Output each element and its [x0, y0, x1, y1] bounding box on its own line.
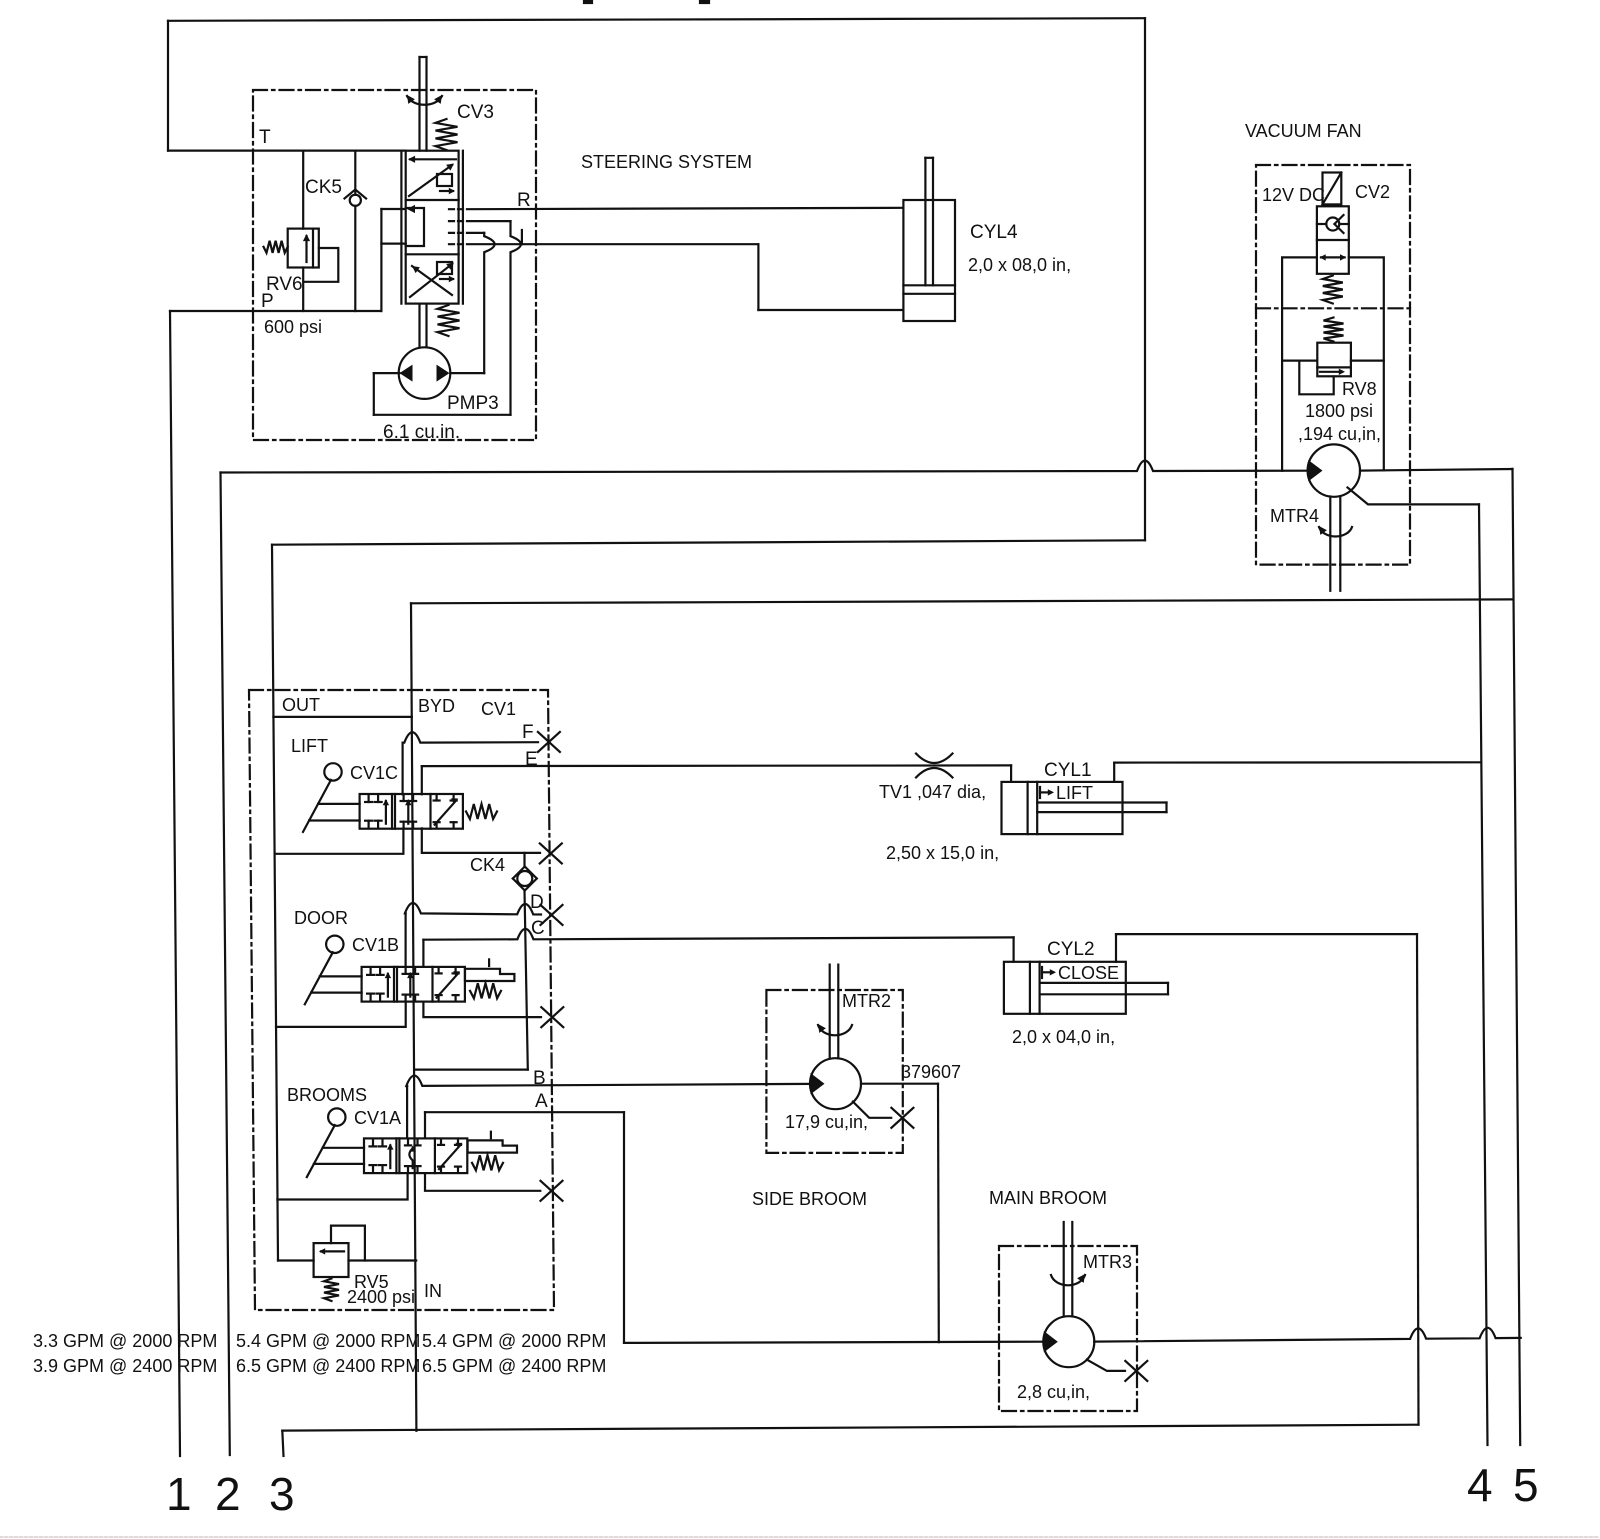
- wire RV6 riser upper: [302, 151, 304, 229]
- wire E line to TV1 and CYL1: [422, 764, 1011, 767]
- svg-text:B: B: [533, 1068, 546, 1089]
- wire CV2 left branch: [1282, 257, 1317, 470]
- svg-text:CYL1: CYL1: [1044, 760, 1092, 781]
- wire CYL2 rod side horizontal: [1116, 933, 1417, 935]
- wire pump right riser with hop over L: [484, 233, 494, 373]
- wire RV8 pilot loop: [1299, 361, 1333, 395]
- wire CV1B work port to plug: [423, 1002, 541, 1018]
- wire CYL1 rod side up: [1113, 763, 1115, 782]
- svg-text:MAIN BROOM: MAIN BROOM: [989, 1188, 1107, 1208]
- svg-text:379607: 379607: [901, 1062, 961, 1082]
- wire CK4 lower: [525, 891, 528, 1070]
- wire A riser from CV1A: [424, 1112, 426, 1138]
- svg-text:2,0 x 04,0 in,: 2,0 x 04,0 in,: [1012, 1027, 1115, 1047]
- relief valve RV8: [1317, 343, 1351, 377]
- svg-text:2400 psi: 2400 psi: [347, 1287, 415, 1307]
- svg-text:3: 3: [269, 1468, 295, 1520]
- motor MTR3: [1043, 1316, 1094, 1367]
- wire T line into CV3: [168, 150, 406, 152]
- wire pilot 3: [467, 232, 484, 234]
- cylinder CYL4 rod: [924, 158, 926, 285]
- svg-text:TV1 ,047 dia,: TV1 ,047 dia,: [879, 782, 986, 802]
- svg-text:MTR2: MTR2: [842, 991, 891, 1011]
- wire MTR2 outlet drop: [937, 1084, 940, 1343]
- wire MTR4 case drain: [1348, 488, 1480, 505]
- svg-text:CV2: CV2: [1355, 182, 1390, 202]
- cylinder CYL1 rod: [1037, 801, 1166, 803]
- svg-text:CYL2: CYL2: [1047, 939, 1095, 960]
- wire R line to CYL4 head: [467, 208, 903, 209]
- svg-text:BROOMS: BROOMS: [287, 1085, 367, 1105]
- svg-text:VACUUM FAN: VACUUM FAN: [1245, 121, 1362, 141]
- svg-text:CYL4: CYL4: [970, 222, 1018, 243]
- svg-text:4: 4: [1467, 1459, 1493, 1511]
- svg-text:RV6: RV6: [266, 274, 303, 295]
- CV3 centre cell blocked port bracket: [406, 208, 424, 246]
- MTR4 shaft: [1329, 497, 1331, 591]
- cylinder CYL1 body: [1002, 782, 1123, 834]
- CV3 bottom cell arrows: [410, 264, 452, 297]
- valve CV1A: [364, 1138, 467, 1173]
- wire A line: [425, 1111, 624, 1113]
- wire L to CYL4 cap: [758, 309, 903, 311]
- wire C drop into CYL2: [1012, 937, 1014, 961]
- wire A drop: [623, 1112, 625, 1343]
- plug below CV1C: [540, 843, 562, 863]
- svg-text:12V DC: 12V DC: [1262, 185, 1325, 205]
- MTR2 shaft: [829, 965, 831, 1059]
- svg-text:CLOSE: CLOSE: [1058, 963, 1119, 983]
- motor MTR2: [810, 1058, 861, 1109]
- relief valve RV6 pilot line: [303, 248, 338, 282]
- cylinder CYL4 body: [903, 200, 955, 321]
- svg-text:6.5 GPM @ 2400 RPM: 6.5 GPM @ 2400 RPM: [422, 1356, 606, 1376]
- wire line 2 vertical: [221, 473, 230, 1456]
- svg-text:5.4 GPM @ 2000 RPM: 5.4 GPM @ 2000 RPM: [422, 1331, 606, 1351]
- wire MTR3 case drain: [1087, 1360, 1125, 1371]
- wire tank-return top rail: [168, 18, 1145, 21]
- wire line 4: [1479, 504, 1488, 1445]
- wire C riser from CV1B: [422, 940, 424, 967]
- svg-text:DOOR: DOOR: [294, 908, 348, 928]
- wire RV5 pilot loop: [331, 1226, 365, 1261]
- CV1A detent plunger: [468, 1140, 517, 1152]
- CV3 top cell arrows: [410, 158, 456, 160]
- wire pilot 2 to pump loop: [467, 220, 511, 222]
- wire CK4 upper: [523, 853, 525, 867]
- scanner edge artifact: [0, 1536, 1600, 1538]
- svg-text:6.5 GPM @ 2400 RPM: 6.5 GPM @ 2400 RPM: [236, 1356, 420, 1376]
- wire MTR3 outlet with hops: [1094, 1328, 1521, 1342]
- svg-text:D: D: [530, 892, 544, 913]
- steering valve spring lower: [438, 305, 460, 336]
- svg-text:MTR4: MTR4: [1270, 506, 1319, 526]
- wire B line with hop over BYD: [406, 1076, 810, 1086]
- svg-text:,194 cu,in,: ,194 cu,in,: [1298, 424, 1381, 444]
- svg-text:BYD: BYD: [418, 696, 455, 716]
- wire C line with hop over CK4: [423, 929, 1013, 940]
- wire return line to CV1 (y600): [411, 599, 1513, 603]
- wire bottom return line: [282, 1425, 1418, 1431]
- MTR3 dash-dot enclosure: [999, 1246, 1137, 1411]
- node L tick: [521, 230, 523, 244]
- wire CK4 link to BYD: [415, 1068, 528, 1070]
- relief valve RV5: [314, 1243, 349, 1277]
- wire P riser: [380, 209, 382, 311]
- check valve CK4: [517, 871, 532, 886]
- steering valve CV3 right rail: [462, 151, 464, 304]
- svg-text:C: C: [531, 918, 545, 939]
- wire L pilot stub (dashed): [449, 243, 467, 245]
- svg-text:SIDE BROOM: SIDE BROOM: [752, 1189, 867, 1209]
- svg-text:CV1B: CV1B: [352, 935, 399, 955]
- CV3 stem: [418, 57, 420, 151]
- valve CV1C lever: [324, 763, 341, 780]
- wire pump left riser with hop over L: [511, 221, 521, 415]
- MTR2 case drain plug: [891, 1108, 913, 1128]
- RV8 spring: [1324, 318, 1344, 342]
- svg-text:2,50 x 15,0 in,: 2,50 x 15,0 in,: [886, 843, 999, 863]
- wire line 3: [282, 1431, 283, 1456]
- svg-text:600 psi: 600 psi: [264, 317, 322, 337]
- MTR4 rotation arrow: [1319, 527, 1352, 536]
- wire MTR2 outlet: [861, 1083, 938, 1085]
- svg-text:CK5: CK5: [305, 177, 342, 198]
- wire F riser from CV1C: [402, 743, 404, 795]
- MTR3 rotation arrow: [1051, 1275, 1085, 1285]
- svg-text:A: A: [535, 1091, 548, 1112]
- wire MTR2 case drain: [853, 1102, 891, 1118]
- svg-text:IN: IN: [424, 1281, 442, 1301]
- cylinder CYL2 body: [1004, 962, 1126, 1014]
- wire L line: [467, 243, 758, 245]
- svg-text:LIFT: LIFT: [291, 736, 328, 756]
- wire P stub upper into CV3: [381, 208, 405, 210]
- wire pump right port: [450, 372, 484, 374]
- valve CV1A lever: [328, 1108, 345, 1125]
- plug below CV1A: [541, 1181, 563, 1201]
- svg-text:1800 psi: 1800 psi: [1305, 401, 1373, 421]
- wire F line with hop over BYD: [403, 732, 538, 742]
- wire E riser from CV1C: [421, 766, 423, 794]
- svg-text:LIFT: LIFT: [1056, 783, 1093, 803]
- CV2 spring: [1323, 276, 1343, 304]
- steering valve spring upper: [436, 119, 458, 150]
- svg-text:R: R: [517, 190, 531, 211]
- wire CV1C return to OUT: [275, 828, 404, 853]
- CV2 check ball: [1326, 218, 1339, 231]
- wire RV8 outlet: [1351, 360, 1384, 362]
- wire pilot stub 2 (dashed): [449, 220, 467, 222]
- solenoid coil CV2: [1323, 173, 1342, 205]
- svg-text:RV8: RV8: [1342, 379, 1377, 399]
- wire P stub lower into CV3: [381, 243, 405, 245]
- wire main line 2 to MTR4 (hop over tank riser): [221, 461, 1308, 473]
- orifice TV1: [916, 754, 953, 764]
- valve CV1C: [360, 794, 463, 829]
- CV2 two-way arrows: [1321, 256, 1345, 258]
- cropped title remnant marks: [584, 0, 592, 3]
- check valve CK5: [350, 195, 361, 206]
- svg-text:17,9 cu,in,: 17,9 cu,in,: [785, 1112, 868, 1132]
- wire CV1C work port to plug: [422, 828, 540, 853]
- MTR3 shaft: [1063, 1222, 1065, 1316]
- wire R pilot stub (dashed): [449, 208, 467, 210]
- svg-text:CV1A: CV1A: [354, 1108, 401, 1128]
- CYL1 LIFT arrow: [1040, 791, 1051, 793]
- wire BYD / IN vertical: [411, 603, 416, 1431]
- svg-text:6.1 cu.in.: 6.1 cu.in.: [383, 422, 460, 443]
- valve CV1B: [362, 967, 465, 1002]
- wire D line with hops over BYD and CK4: [405, 903, 541, 915]
- wire B riser from CV1A: [406, 1086, 408, 1138]
- svg-text:MTR3: MTR3: [1083, 1252, 1132, 1272]
- wire OUT rail (CV1 block tank rail): [272, 545, 278, 1261]
- svg-text:2,0 x 08,0 in,: 2,0 x 08,0 in,: [968, 255, 1071, 275]
- wire pump suction loop bottom: [374, 414, 511, 416]
- wire pump suction loop left: [373, 373, 375, 415]
- wire CYL1 rod side to line 4: [1114, 761, 1479, 763]
- svg-text:CK4: CK4: [470, 855, 505, 875]
- svg-text:PMP3: PMP3: [447, 393, 499, 414]
- motor MTR4: [1308, 444, 1360, 496]
- wire CK5 riser upper: [354, 151, 356, 195]
- wire CV1A work port to plug: [425, 1173, 540, 1191]
- svg-text:E: E: [525, 749, 538, 770]
- svg-text:3.3 GPM @ 2000 RPM: 3.3 GPM @ 2000 RPM: [33, 1331, 217, 1351]
- wire tank-return right riser: [1144, 18, 1146, 540]
- svg-text:CV3: CV3: [457, 102, 494, 123]
- svg-text:2,8 cu,in,: 2,8 cu,in,: [1017, 1382, 1090, 1402]
- vacuum fan dash-dot enclosure: [1256, 165, 1410, 565]
- CV1B detent plunger: [465, 969, 514, 981]
- wire CK5 riser lower: [354, 206, 356, 311]
- svg-text:5.4 GPM @ 2000 RPM: 5.4 GPM @ 2000 RPM: [236, 1331, 420, 1351]
- wire E drop into CYL1: [1010, 765, 1012, 782]
- plug below CV1B: [541, 1007, 563, 1027]
- steering valve CV3 left rail: [400, 151, 402, 304]
- pump PMP3: [399, 347, 451, 399]
- wire P line: [170, 310, 381, 312]
- MTR2 dash-dot enclosure: [766, 990, 902, 1153]
- CYL2 CLOSE arrow: [1042, 971, 1053, 973]
- wire pump left port: [374, 372, 400, 374]
- wire tank-return left riser (T to top rail): [167, 21, 169, 151]
- plug at port D: [541, 905, 563, 925]
- CV1 block dash-dot enclosure: [249, 690, 554, 1310]
- wire CYL2 rod side drop: [1417, 934, 1419, 1425]
- CV1A spring: [472, 1155, 503, 1170]
- CV3 rotary arrow: [407, 96, 442, 105]
- MTR2 rotation arrow: [818, 1025, 852, 1035]
- CV1C spring: [466, 804, 497, 819]
- svg-text:OUT: OUT: [282, 695, 320, 715]
- svg-text:3.9 GPM @ 2400 RPM: 3.9 GPM @ 2400 RPM: [33, 1356, 217, 1376]
- PMP3 stem: [418, 304, 420, 348]
- wire D riser from CV1B: [405, 913, 407, 967]
- wire OUT rail to RV5 inlet: [278, 1259, 314, 1261]
- wire CV1A return to OUT: [277, 1173, 407, 1199]
- wire RV8 inlet: [1282, 360, 1317, 362]
- svg-text:CV1C: CV1C: [350, 763, 398, 783]
- MTR3 case drain plug: [1125, 1361, 1147, 1381]
- wire OUT branch to BYD top: [273, 716, 412, 718]
- valve CV1B lever: [326, 936, 343, 953]
- svg-text:2: 2: [215, 1468, 241, 1520]
- wire RV6 riser lower: [302, 268, 304, 312]
- steering valve CV3 body: [406, 151, 459, 304]
- wire suction line 1: [170, 311, 180, 1456]
- svg-text:STEERING SYSTEM: STEERING SYSTEM: [581, 152, 752, 172]
- wire A feed to MTR3: [624, 1342, 1044, 1343]
- steering assembly dash-dot enclosure: [253, 90, 536, 440]
- svg-text:1: 1: [166, 1468, 192, 1520]
- svg-text:F: F: [522, 722, 534, 743]
- wire tank-return horizontal to OUT rail: [272, 540, 1145, 544]
- wire CV2 right branch: [1349, 257, 1384, 470]
- cylinder CYL2 rod: [1040, 982, 1168, 984]
- wire RV5 outlet to IN: [349, 1259, 417, 1261]
- wire CYL2 rod side up: [1115, 934, 1117, 962]
- valve CV2 body: [1317, 206, 1349, 273]
- wire pilot stub 3 (dashed): [449, 232, 467, 234]
- svg-text:T: T: [259, 127, 271, 148]
- relief valve RV6: [288, 229, 319, 268]
- svg-text:CV1: CV1: [481, 699, 516, 719]
- wire L drop: [757, 244, 759, 310]
- RV5 spring: [324, 1279, 339, 1302]
- CV1B spring: [470, 983, 501, 998]
- vacuum fan enclosure divider: [1256, 307, 1410, 309]
- wire line 5: [1513, 469, 1521, 1445]
- svg-text:5: 5: [1513, 1459, 1539, 1511]
- plug at port F: [538, 732, 560, 752]
- wire MTR4 outlet: [1360, 469, 1513, 471]
- wire CV1B return to OUT: [276, 1002, 406, 1027]
